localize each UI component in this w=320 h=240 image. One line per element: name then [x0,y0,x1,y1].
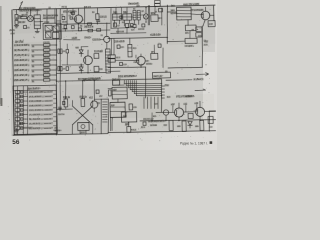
wire double v148b [148,5,151,25]
wire matrix row tick 6 [53,116,56,118]
wire y21 link [56,20,61,22]
capacitor band row 2 [43,49,49,52]
wire Z2 to VT4 [191,14,203,15]
label R12 [63,96,70,98]
wire VT4 up [204,7,206,11]
wire if stub2 [140,14,144,16]
node bottom2 [128,122,129,123]
block A1 hatch1 [45,32,50,38]
wire y73 [56,72,105,73]
wire v67 mid2 [66,53,69,65]
node if1 [145,7,146,8]
label C28 [131,29,134,31]
resistor R12 [64,99,68,107]
block A1 outer [43,23,61,39]
resistor R18 [188,113,193,118]
inductor T3 winding A hatch [133,13,136,18]
label C10 [129,25,132,27]
label band cap 1 [43,41,49,43]
wire v106 lower [106,42,108,49]
switch matrix cell b 1 [21,91,23,94]
ground band row 3 [32,55,34,57]
wire L3 pin2 [118,20,120,24]
switch matrix cell 9 [15,126,20,129]
label fp right [198,35,201,37]
diode VD4 [188,121,193,128]
label Z2 pins [170,9,173,11]
transistor VT6 base bar [176,110,178,115]
wire matrix row tick 5 [53,111,56,113]
wire VT8 up [93,80,96,100]
block U2 [151,15,158,22]
label band header [15,40,24,43]
wire stair drop 4 [153,97,156,109]
wire L3 pin1 [113,20,115,26]
svg-text:56: 56 [12,139,20,146]
node y65 [81,64,82,65]
wire Z1 down [36,29,38,32]
wire x202 corner [168,66,202,69]
label A1 title2 [43,17,55,19]
ground band row 5 [32,65,34,67]
filter Z1 hatch1 [34,17,40,19]
mixer U1 X stroke1 [28,16,32,20]
scan interior haze [11,5,215,136]
label band cap 7 [43,71,49,73]
resistor R5 [96,14,99,20]
wire matrix row 3 [20,100,28,102]
wire y39 seg [64,38,80,41]
label +12V top [72,37,77,39]
wire VD3 down [145,19,147,22]
label VT5 line2 [146,63,152,65]
label U7 in [123,115,126,117]
wire L5 top [101,98,108,100]
wire bus x167 [166,5,168,43]
diode VD3 cross a [144,15,148,19]
block L4 can pin [126,14,128,20]
label +12 b [183,103,186,105]
wire mixer to Z1 [32,17,35,19]
wire out rail y120 [140,119,216,121]
label к Вых [193,78,203,80]
wire input stem [15,10,17,15]
wire band row 4 b [50,59,57,61]
label U7 [125,123,128,125]
wire Z1 up [36,10,38,15]
wire Z2 in [167,11,176,13]
wire U6 down b [111,118,114,131]
block U3 [151,53,158,59]
wire matrix row 7 [20,118,28,120]
wire U5 to U6 [117,99,119,103]
capacitor C20 [129,104,133,110]
label DD1 [118,75,134,78]
wire matrix row 6 [20,113,28,115]
block L3 can hatch [113,16,122,18]
label C3 value [100,16,107,18]
transistor VT6 [174,108,183,117]
node if2 [167,37,168,38]
label rail c6 [62,21,67,23]
wire VT3 bottom [87,65,89,73]
svg-text:вых. ЗЧ +12В: вых. ЗЧ +12В [183,3,199,6]
capacitor C9 [114,23,117,27]
wire band row 2 a [31,49,43,52]
label Z2 pins2 [170,12,176,14]
capacitor C15 [117,45,120,48]
label U4 [165,70,167,72]
label U5 [113,89,116,91]
svg-text:DD1 КР1858ВМ: DD1 КР1858ВМ [118,74,137,78]
diode VD2 [79,64,83,73]
inductor L5 hatch [102,102,108,122]
label U6 [111,104,114,106]
wire U7 down [128,122,130,126]
label +12 c [194,102,197,104]
wire Z2 down [187,20,189,25]
label U2 [151,12,154,14]
wire R13 up [81,81,84,99]
switch matrix cell b 5 [21,109,23,112]
svg-text:Радио № 1, 1987 г.: Радио № 1, 1987 г. [180,141,208,145]
wire v161 [160,8,163,25]
wire +12 bus mid [108,37,167,38]
capacitor band row 7 [43,74,49,77]
capacitor C14 [208,21,215,27]
wire K1 to VT5 [115,60,139,61]
block L3 can pin [116,14,118,20]
wire +12a stub [172,106,174,113]
label matrix row 1 [29,91,53,94]
wire L4 pin1 [123,20,125,26]
wire R3 to mixer U1 [26,17,29,19]
label vt1 e [80,25,82,27]
wire +12c stub [196,105,198,112]
filter Z1 hatch3 [34,24,40,26]
label C7 pair [63,68,65,70]
wire band row 7 a [31,74,43,77]
label band cap 5 [43,61,49,63]
filter Z1 box [34,15,41,29]
capacitor C6 pair [58,49,62,54]
wire staircase 3 [128,80,161,89]
wire v64 down [64,29,66,32]
wire y71 seg [108,70,120,72]
wire A1 up2 [54,9,57,23]
ground band row 1 [32,45,34,47]
label band cap 3 [43,51,49,53]
wire stair drop 3 [150,97,153,109]
wire z3 down [189,31,191,39]
label Вх text line1 [19,7,35,10]
wire rail y31 [57,30,110,31]
wire bus x60 [58,9,63,110]
label matrix row 8 [29,122,53,125]
wire v67 mid [66,44,68,50]
ground input [14,24,18,28]
label +12 right [204,40,207,42]
transistor VT4 [201,11,210,20]
matrix header rule [13,90,56,92]
label top x51 [48,6,50,8]
label matrix note [19,126,32,128]
wire R5 up [96,8,98,14]
label margin note1 [9,29,15,31]
label vt8 [97,102,100,104]
ground matrix [14,128,18,133]
switch matrix cell b 6 [21,113,23,116]
wire +12b stub [185,105,187,112]
switch matrix cell 1 [15,90,20,93]
resistor R10 [94,53,99,58]
label T3 [133,8,135,10]
wire out y112 a [156,111,174,114]
label Вх text line2 [19,9,39,12]
wire VT1 base [71,18,76,20]
table cell b [155,3,161,6]
label T2 [94,50,102,52]
wire matrix row 9 [20,127,28,129]
label Pd2 [112,78,120,80]
label R17 [131,129,137,131]
label det [136,5,139,7]
wire if stub1 [132,16,134,18]
wire v73 top [72,9,74,16]
wire stair drop 1 [143,97,146,109]
label C26 [61,14,63,16]
label A1 pin [44,21,49,23]
wire VT4 right [210,14,214,16]
resistor R17 [127,126,131,132]
label matrix row 6 [29,113,53,116]
label VTpair [185,95,191,97]
wire matrix row 4 [20,104,28,106]
label top x63 [61,6,67,8]
label U2 pin [159,17,160,19]
wire v84 [83,9,86,25]
wire v145 down [145,67,146,98]
wire vt2 left [100,38,104,40]
block U7 DD2 [121,112,136,123]
label U4 in [153,75,162,77]
wire L3 top1 [115,8,117,14]
capacitor C25 [23,25,26,28]
wire VT7 down [199,116,201,120]
wire rail IF [111,27,133,29]
resistor R21 [200,120,204,130]
wire IF rail2 [111,32,146,35]
inductor L2 winding [105,49,110,73]
wire R5 down [96,22,98,25]
inductor L2 hatch [105,52,110,70]
switch matrix cell 5 [15,108,20,111]
label VT9 [80,131,84,133]
wire matrix row 1 [20,91,28,93]
block A1 inner1 [45,25,52,31]
transformer T1 cross [72,100,94,134]
wire rail y24 [57,23,110,24]
wire v118 stub [117,28,119,34]
label +12 osc [89,96,92,98]
scan left edge shadow [0,6,2,104]
node out4 [209,119,210,120]
wire top border [13,5,215,10]
wire ground rail bottom right [108,130,216,133]
capacitor C5 [97,29,101,32]
wire matrix row tick 9 [53,129,56,131]
matrix col line b [22,86,24,135]
label matrix row 9 [29,127,53,130]
wire stair left tail [118,84,124,86]
wire band row 1 b [50,44,57,46]
resistor R3 [21,16,27,18]
wire U7 up [125,112,127,118]
antenna WA1 tick [21,2,23,4]
label margin fpch [171,5,175,7]
label bus 240V [78,77,101,80]
label R6 value [84,25,93,27]
resistor R6 on rail [87,23,91,25]
relay K1 contact b [108,59,115,62]
label R3 value [22,14,28,16]
wire bottom border left [13,133,108,136]
wire VT1 emitter [77,23,79,28]
wire bus x161 [161,80,162,112]
label +12 l5 [99,95,102,97]
label band row 7 [14,74,30,76]
relay K1 contact a [108,55,115,58]
block L3 can [112,14,121,21]
node out1 [178,120,179,121]
wire VT7 up [199,102,201,108]
label R5 value [92,11,94,13]
wire band row 5 b [50,64,57,66]
block A1 inner3 [45,32,51,38]
label U3 [151,51,154,53]
label keys line2 [150,124,157,126]
switch matrix cell b 4 [21,104,23,107]
capacitor C33 [120,16,122,19]
label +12V mid [150,34,160,36]
resistor R13 [81,98,85,106]
wire v111 mid [110,38,113,55]
wire staircase 5 [132,80,161,92]
node osc1 [65,80,66,81]
mixer U1 X stroke2 [28,17,32,21]
IC U6 [110,102,126,117]
capacitor C4 [96,20,99,22]
wire IF v111 [110,8,113,28]
filter Z2 EMF [176,7,191,20]
resistor R16 [109,90,112,96]
label A2 tag [70,12,73,14]
wire mid power bus [56,79,161,81]
wire band row 6 b [50,69,57,71]
wire R12 up [64,81,67,99]
capacitor C32 [96,90,99,93]
wire out stub y80 [166,79,192,82]
label +12 a [171,103,174,105]
wire v127 stub [126,28,128,34]
label R13 [80,96,87,98]
wire A1 up1 [46,9,49,23]
label R11v [99,68,102,70]
label matrix row 4 [29,104,53,107]
label c31 [123,64,126,66]
wire VT1 collector [77,9,79,15]
label C14 [209,23,212,25]
label C1 value [19,15,22,17]
capacitor band row 4 [43,59,49,62]
label L4 [123,11,126,13]
wire VT3 top [87,50,89,56]
matrix col line c [26,86,28,135]
wire VT5 down [140,65,142,67]
wire out join [209,110,215,112]
switch matrix cell 8 [15,122,20,125]
node bus3 [56,44,57,45]
label Z3 [185,32,188,34]
label K1 [116,56,120,58]
capacitor C11 [133,24,136,27]
switch matrix cell b 7 [21,118,23,121]
ground band row 6 [32,70,34,72]
resistor R2 [15,20,18,24]
label r23 out [167,96,170,98]
label C6 pair [63,50,65,52]
svg-text:Т2 ПЧ80: Т2 ПЧ80 [94,51,104,53]
wire VT6 down [178,117,180,120]
switch matrix cell b 2 [21,95,23,98]
resistor R11 [94,66,99,72]
ground band row 4 [32,60,34,62]
ground Z1 [35,31,39,32]
wire u2 right [158,17,162,19]
IC U5 [112,87,127,99]
label margin header [183,3,199,6]
resistor R8 [88,29,93,32]
label if mid [141,10,143,12]
node osc3 [94,80,95,81]
capacitor C31 [119,62,122,65]
label VT1 [63,10,75,13]
label if r1 [122,21,124,23]
wire mixer up [29,10,31,16]
inductor T3 winding B [137,10,140,20]
label c30 [133,61,136,63]
node bus2 [60,30,61,31]
wire band row 2 b [50,49,57,51]
capacitor C24 [66,67,69,71]
label band cap 2 [43,46,49,48]
node y67 [140,66,141,67]
label ZQ1 [133,47,136,49]
wire v121 up [120,8,122,14]
switch matrix cell 3 [15,99,20,102]
node ticks bus x161 [161,86,165,98]
label VT5 line1 [146,60,148,62]
label C16 [58,113,65,115]
label matrix row 2 [29,95,53,98]
crystal ZQ1 [128,44,132,57]
node if4 [145,21,146,22]
wire VT5 up [140,54,142,56]
label band cap 8 [43,76,49,78]
capacitor C26 [62,16,65,19]
wire stub x155 [154,6,156,15]
label VT4 [191,9,203,11]
